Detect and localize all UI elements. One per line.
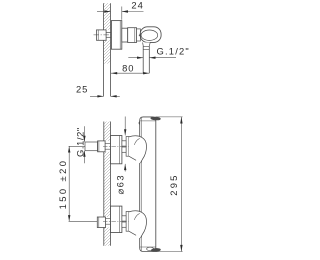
svg-text:80: 80 xyxy=(122,62,134,73)
dimension 150 ±20 (side view) xyxy=(57,146,71,221)
handle temperature marker (plan view) xyxy=(139,33,142,37)
top connection: escutcheon xyxy=(111,136,122,164)
wall escutcheon plate (plan view) xyxy=(111,21,121,50)
svg-text:25: 25 xyxy=(76,83,88,94)
G.1/2 callout (side view) xyxy=(74,126,85,163)
valve neck cylinder (plan view) xyxy=(122,28,128,42)
top connection: centre line extension xyxy=(69,145,85,147)
hose outlet pipe (plan view) xyxy=(143,46,149,73)
bottom connection: union sphere at bar xyxy=(129,211,147,238)
hose outlet neck below handle (plan view) xyxy=(143,42,151,46)
bottom cap ring detail (side view) xyxy=(147,247,154,250)
svg-text:295: 295 xyxy=(168,173,179,195)
supply nut behind wall (plan view) xyxy=(97,30,107,40)
bottom connection: centre line extension xyxy=(69,220,98,222)
top connection: G1/2 threaded tail xyxy=(85,142,98,151)
G.1/2 thread callout (plan view) xyxy=(128,46,190,59)
bottom connection: rings xyxy=(122,212,129,232)
svg-text:150 ±20: 150 ±20 xyxy=(57,159,68,210)
bottom connection: pipe through wall xyxy=(106,218,111,224)
valve body (plan view) xyxy=(128,28,137,43)
dimension 24 (plan view) xyxy=(97,0,144,20)
top connection: wall nut xyxy=(98,141,106,152)
svg-text:G.1/2": G.1/2" xyxy=(74,127,85,157)
bottom connection: wall nut xyxy=(97,217,105,228)
dimension 25 wall thickness (plan view) xyxy=(76,83,120,97)
pipe through wall (plan view) xyxy=(106,32,111,37)
mixer bar body (side view) xyxy=(140,117,156,252)
bottom cap dark insert (side view) xyxy=(151,248,161,252)
top connection: rings xyxy=(122,137,129,157)
bottom connection: escutcheon xyxy=(111,206,122,232)
svg-text:24: 24 xyxy=(131,0,143,11)
wall section (plan view, hatched) xyxy=(104,3,111,96)
top connection: centre line xyxy=(103,145,132,147)
wall section (side view, hatched) xyxy=(104,122,111,246)
temperature stop button on bar left (side view) xyxy=(138,121,141,124)
svg-text:G.1/2": G.1/2" xyxy=(157,46,190,57)
diameter 63 callout (side view) xyxy=(115,117,127,195)
top connection: pipe through wall xyxy=(105,143,110,149)
centre line (plan view) xyxy=(94,34,141,36)
dimension 80 (plan view) xyxy=(111,62,149,74)
dimension 295 (side view) xyxy=(156,117,183,252)
handle knob inner ellipse (plan view) xyxy=(141,30,158,40)
top cap dark insert (side view) xyxy=(151,117,161,121)
handle knob outer (plan view) xyxy=(137,27,162,43)
bottom connection: centre line xyxy=(103,220,132,222)
top connection: union sphere at bar xyxy=(129,136,147,163)
svg-text:⌀63: ⌀63 xyxy=(115,174,126,195)
